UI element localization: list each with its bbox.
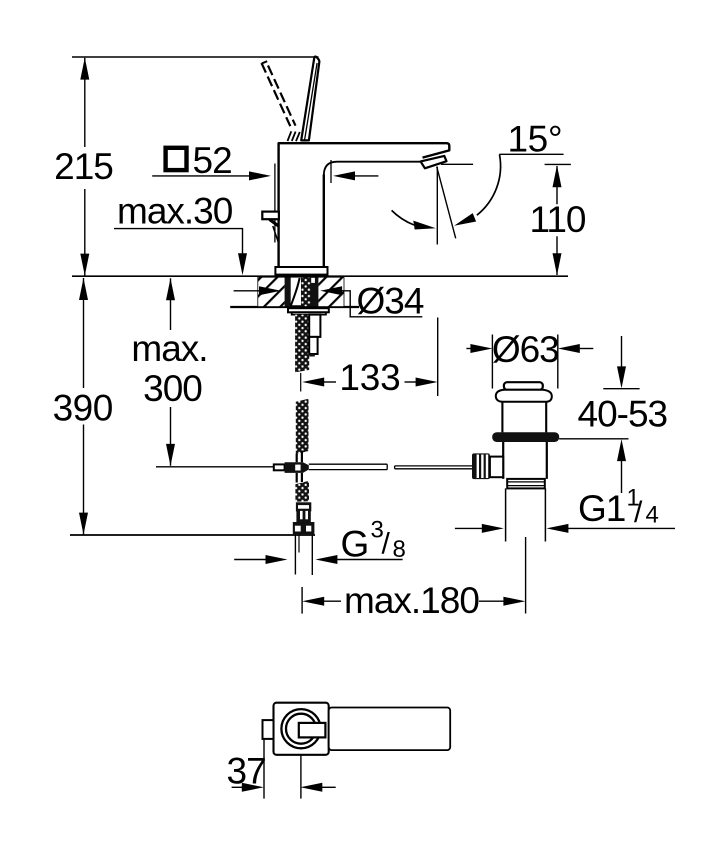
dim 52 arrow right [249, 171, 271, 180]
hose end knurl [296, 511, 310, 522]
rod knurled adjuster [472, 453, 490, 479]
dim 40-53 bottom tick [559, 438, 628, 440]
dim 215 arrow up [80, 58, 89, 80]
dim 40-53 bottom line [621, 460, 623, 493]
dim 37 left tail [232, 786, 244, 788]
dim O63 arrow left [558, 344, 580, 353]
svg-text:52: 52 [193, 140, 232, 181]
dim 40-53 top line [621, 336, 623, 368]
svg-text:/: / [382, 528, 391, 561]
valve tailpiece (G1 1/4) [506, 488, 546, 541]
valve center extension line [525, 537, 527, 614]
secondary pipe upper [309, 315, 320, 337]
angle arc left arrowhead [413, 221, 436, 230]
braided hose inside shank [301, 278, 311, 307]
aerator (15 deg tilted outlet) [421, 156, 447, 168]
shank hose clearance white [291, 278, 301, 306]
knurl white stripe 1 [300, 511, 303, 519]
secondary pipe lower [309, 337, 317, 354]
dim 37 right tail [321, 786, 335, 788]
svg-text:8: 8 [393, 536, 406, 563]
hose end nut [296, 502, 311, 511]
dim max180 arrow right [503, 597, 525, 606]
dim max.30 arrow down [238, 253, 247, 275]
pop-up rod side tab [262, 212, 279, 220]
rod linkage diagonal thin [273, 226, 279, 243]
dim G3/8 left tail [234, 559, 267, 561]
dim max180 line right [479, 600, 505, 602]
lever handle dashed alternate position edge B [268, 66, 296, 126]
dim O63 ext line right [557, 335, 559, 389]
dim 40-53 arrow down [617, 366, 626, 388]
fitting window left [295, 526, 301, 532]
dim 110 arrow up [553, 165, 562, 187]
svg-text:max.30: max.30 [117, 191, 233, 232]
svg-text:G: G [341, 523, 370, 564]
dashed lever tip dash [262, 61, 267, 63]
section top bold edge [258, 276, 343, 278]
top view handle inner circle [286, 714, 316, 744]
svg-text:4: 4 [646, 502, 659, 529]
dim 390 arrow down [79, 513, 88, 535]
countertop surface line [72, 275, 568, 277]
top view lever stub [299, 723, 326, 738]
hose neck upper [297, 451, 302, 463]
svg-text:390: 390 [53, 387, 113, 428]
svg-text:max.180: max.180 [344, 580, 479, 621]
pivot tick 3 [296, 132, 300, 141]
fitting window right [306, 526, 311, 532]
angle arc left segment [392, 210, 414, 225]
dim max300 line [170, 278, 172, 466]
shank thread notch [311, 278, 315, 283]
dim O34 arrow left [320, 286, 342, 295]
faucet body outline with spout top [279, 143, 450, 267]
dim 133 line left [323, 381, 336, 383]
dim 110 arrow down [553, 253, 562, 275]
lower reference line (390 lower extent) [70, 534, 315, 536]
mounting nut upper [288, 308, 329, 312]
angle arc right segment [477, 155, 501, 216]
dim 37 arrow left [300, 783, 322, 792]
section right block hatching [318, 278, 343, 307]
knurl white stripe 2 [305, 511, 308, 519]
dim max.30 leader [114, 229, 243, 255]
rod clevis white box [274, 464, 285, 470]
dim 52 line left [152, 175, 250, 177]
valve seal flange (O63) [492, 432, 559, 442]
dim G3/8 arrow left [315, 555, 337, 564]
section left block outline [257, 277, 259, 306]
dim 40-53 top tick [603, 388, 639, 390]
svg-text:40-53: 40-53 [578, 394, 668, 435]
dim G1 1/4 arrow left [546, 524, 568, 533]
top view rod tab [263, 720, 274, 739]
hose curve in shank [291, 278, 300, 306]
52 right extension line [330, 160, 332, 183]
valve body [503, 442, 547, 479]
body right edge [323, 175, 325, 268]
dim max300 arrow down [166, 444, 175, 466]
dim O34 line left tail [234, 290, 260, 292]
aerator tilted reference line [437, 167, 456, 239]
secondary pipe step [309, 354, 315, 357]
lever handle inner edge line [305, 63, 318, 140]
dim 40-53 arrow up [617, 439, 626, 461]
svg-text:G1: G1 [578, 488, 625, 529]
rod horizontal right portion [395, 466, 472, 469]
dim max300 arrow up [166, 278, 175, 300]
valve push button [504, 382, 543, 390]
valve collar inner line [507, 481, 545, 483]
adjuster white stripe 1 [477, 455, 479, 479]
rod linkage diagonal thick [270, 220, 279, 227]
rod horizontal left portion [309, 464, 387, 469]
dim G3/8 arrow right [266, 555, 288, 564]
rod crossing block window [295, 465, 300, 471]
angle arc right arrowhead [454, 213, 476, 226]
svg-text:Ø34: Ø34 [357, 281, 424, 322]
dim G1 1/4 arrow right [482, 524, 504, 533]
dim 37 ext line right [300, 755, 302, 799]
section right block outline [343, 277, 345, 306]
dim 37 arrow right [242, 783, 264, 792]
pop-up rod thin line left [156, 466, 275, 468]
dim 37 ext line left [263, 739, 265, 799]
hose center line at break [300, 373, 302, 392]
pivot tick 2 [292, 132, 296, 141]
dim O34 leader [341, 291, 422, 317]
dim G1 1/4 right tail [567, 527, 675, 529]
supply pipe below fitting [295, 534, 312, 575]
dim 133 line right [405, 381, 417, 383]
dim 390 arrow up [79, 278, 88, 300]
dim max180 arrow left [302, 597, 324, 606]
valve ridge [496, 390, 552, 402]
dim 15deg shoulder line [499, 153, 563, 155]
adjuster hub [490, 457, 503, 478]
svg-text:max.: max. [131, 328, 207, 369]
valve neck [502, 402, 546, 433]
dim O63 left tail [466, 348, 471, 350]
dim O63 arrow right [470, 344, 492, 353]
dim 52 line right [354, 175, 378, 177]
dim 215 line [84, 58, 86, 276]
svg-text:15°: 15° [508, 119, 563, 160]
G3/8 compression fitting [293, 522, 315, 534]
braided supply hose segment 1 [295, 315, 309, 373]
base plate (escutcheon) [275, 267, 327, 275]
dim 215 arrow down [80, 254, 89, 276]
svg-text:Ø63: Ø63 [492, 329, 559, 370]
spout underside [324, 162, 421, 176]
mounting nut lower [292, 312, 326, 314]
svg-text:215: 215 [54, 146, 113, 187]
hose end nut window [298, 505, 309, 509]
dim 133 arrow left [302, 378, 324, 387]
svg-text:133: 133 [339, 357, 400, 398]
aerator height line [441, 163, 473, 165]
svg-text:110: 110 [530, 199, 586, 240]
pivot tick 1 [288, 131, 292, 141]
rod crossing block [285, 462, 309, 473]
aerator vertical reference line [436, 167, 438, 245]
spout outlet extension line [437, 318, 439, 397]
threaded shank in section [285, 278, 319, 307]
dim G3/8 right tail [336, 559, 402, 561]
pipe inner line [298, 534, 300, 552]
top reference line (215 upper extent) [72, 56, 319, 58]
braided supply hose segment 3 [295, 481, 309, 502]
dim 390 line [83, 278, 85, 535]
svg-text:/: / [634, 496, 643, 529]
dim O63 ext line left [491, 335, 493, 389]
braided supply hose segment 2 [296, 399, 309, 454]
adjuster white stripe 3 [486, 455, 488, 479]
dim 52 square symbol [166, 148, 187, 170]
hose neck lower [297, 473, 302, 483]
dim 110 top tick [545, 163, 571, 165]
top view spout rectangle [329, 708, 451, 751]
top view body square [274, 703, 329, 755]
dim 52 arrow left [333, 171, 355, 180]
pop-up rod vertical line [274, 164, 276, 243]
dim O34 arrow right [259, 286, 281, 295]
section bottom bold edge [230, 306, 359, 308]
valve collar [507, 479, 545, 489]
top view handle outer circle [281, 709, 320, 748]
dim 133 arrow right [416, 378, 438, 387]
dim O63 right tail [579, 348, 594, 350]
dim G1 1/4 left tail [455, 527, 483, 529]
lever handle dashed alternate position edge A [262, 63, 291, 126]
section left block hatching [258, 278, 284, 307]
lever handle solid position [301, 56, 319, 140]
dim max180 ext left [301, 587, 303, 614]
svg-text:300: 300 [143, 368, 202, 409]
adjuster white stripe 2 [481, 455, 483, 479]
dim max180 line left [323, 600, 341, 602]
dim 110 line [556, 166, 558, 275]
valve collar inner line 2 [507, 485, 545, 487]
